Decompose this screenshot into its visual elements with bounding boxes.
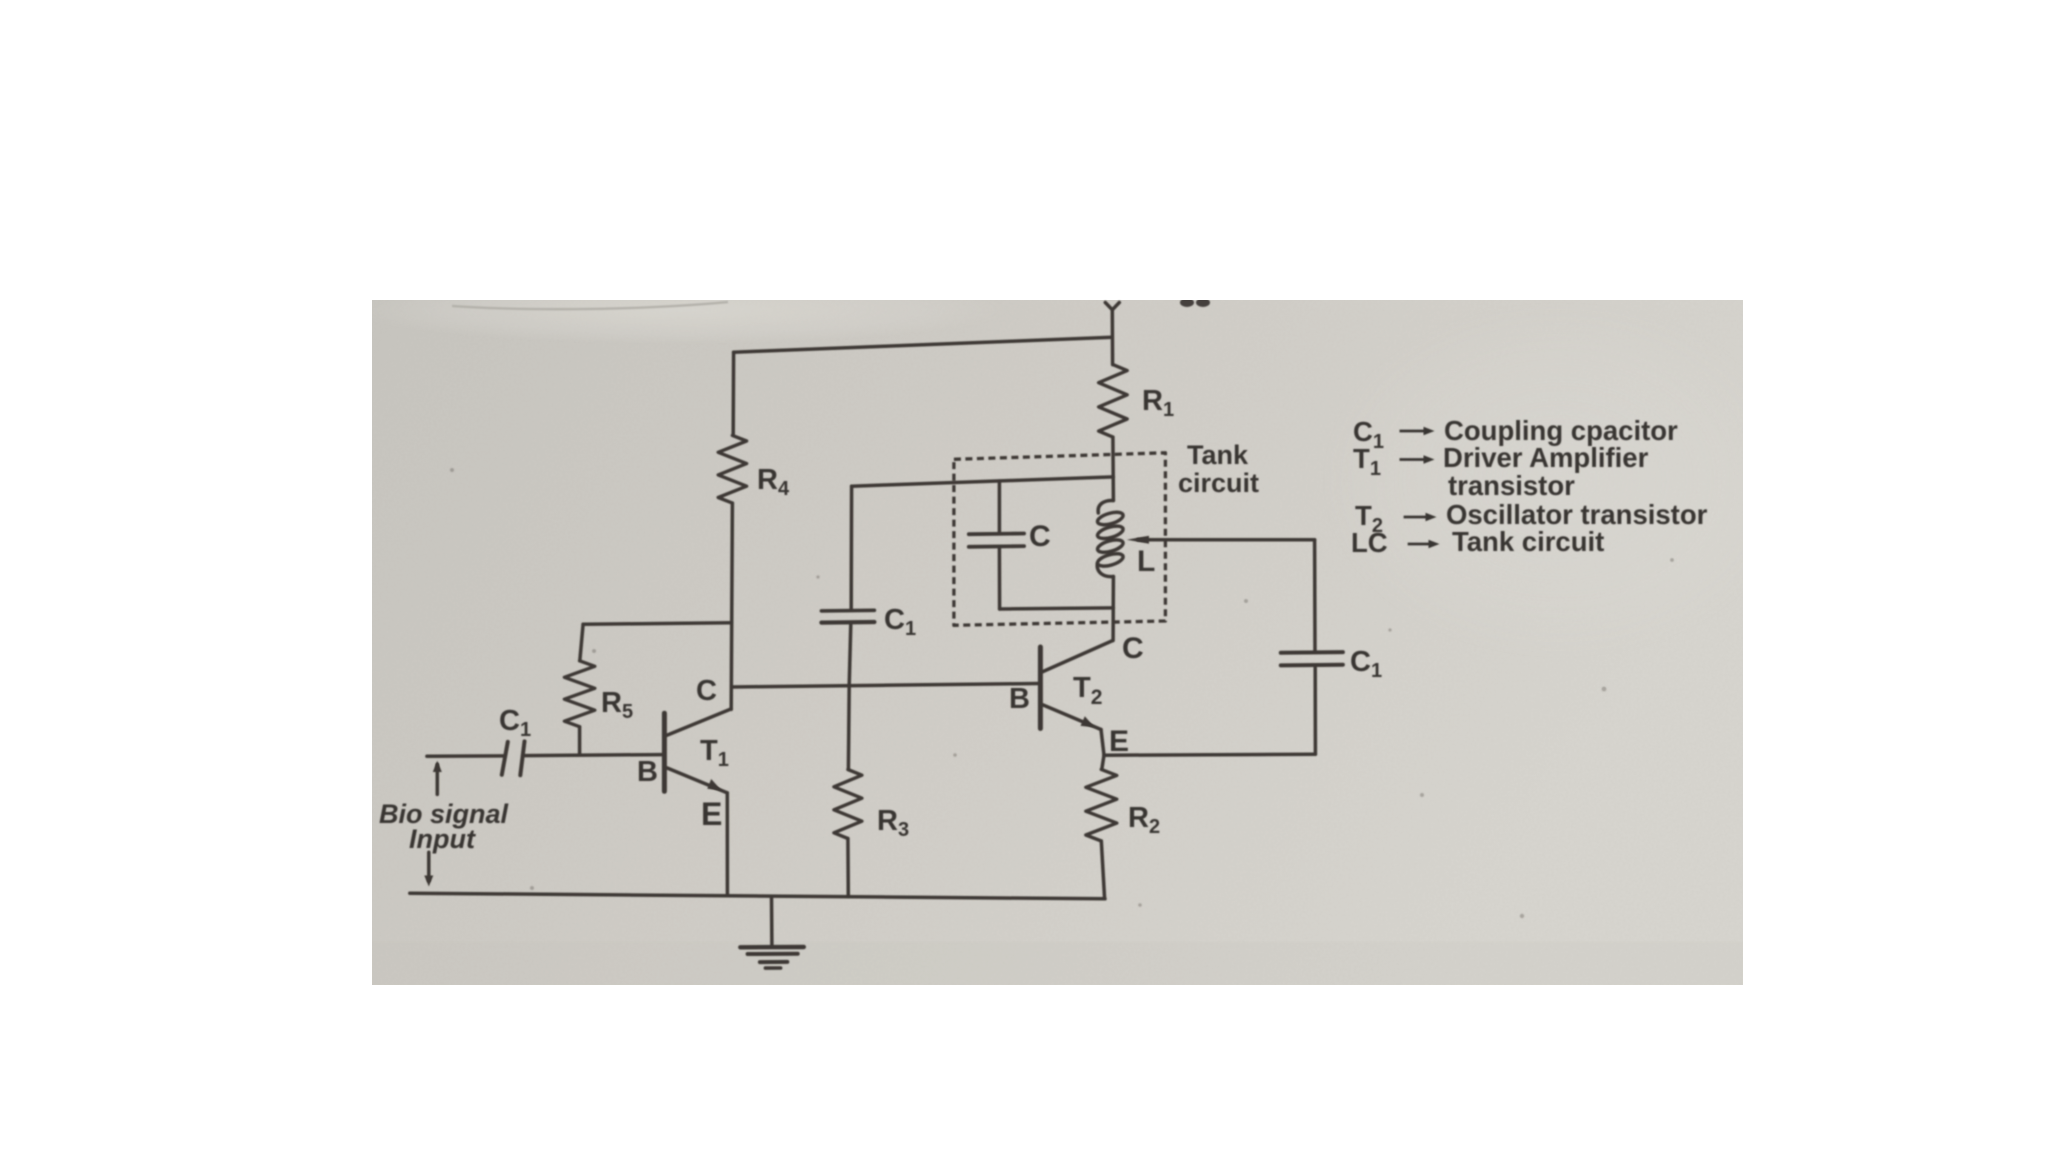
svg-text:C: C xyxy=(1029,520,1051,553)
capacitor C1 input plates xyxy=(502,742,508,775)
arrowhead T1 emitter xyxy=(707,779,721,791)
ground stem xyxy=(770,896,774,945)
wire R5 bottom lead xyxy=(578,727,582,755)
arrowhead T2 emitter xyxy=(1081,716,1095,727)
svg-text:E: E xyxy=(701,796,722,832)
wire C1 mid top lead from tank wire xyxy=(849,486,853,609)
wire C1 right top lead xyxy=(1313,540,1317,651)
inductor L loops xyxy=(1096,510,1124,527)
cropped text marks at top xyxy=(1180,298,1194,307)
resistor R4 xyxy=(718,435,746,503)
capacitor C1 mid plates xyxy=(821,608,874,612)
svg-text:circuit: circuit xyxy=(1178,468,1259,498)
legend arrow 2 xyxy=(1400,458,1427,461)
wire T2 emitter lead xyxy=(1101,730,1104,756)
legend arrow 3 xyxy=(1404,516,1428,519)
wire R2 bottom lead xyxy=(1101,841,1104,899)
faint pencil stroke top-left xyxy=(452,302,728,309)
wire C1 to T1 base xyxy=(524,755,662,756)
legend arrowhead 3 xyxy=(1426,513,1437,522)
transistor T2 base bar xyxy=(1038,647,1043,729)
arrowhead input up xyxy=(433,761,442,772)
transistor T1 collector stroke xyxy=(666,709,731,736)
wire feedback arrow line to L xyxy=(1138,538,1315,542)
wire C1 mid bottom through main wire to R3 xyxy=(848,624,850,770)
wire R2 top lead xyxy=(1102,755,1104,769)
capacitor C tank plates xyxy=(969,532,1024,537)
svg-text:B: B xyxy=(637,756,658,788)
transistor T1 base bar xyxy=(662,713,667,791)
svg-text:C: C xyxy=(696,675,717,707)
inductor L hooks xyxy=(1098,500,1113,513)
svg-text:B: B xyxy=(1009,683,1030,715)
svg-text:transistor: transistor xyxy=(1448,470,1575,501)
resistor R5 xyxy=(564,661,594,727)
photo of textbook page xyxy=(372,300,1743,985)
wire R1 to L xyxy=(1111,437,1115,500)
capacitor C1 right plates xyxy=(1281,663,1343,668)
svg-text:E: E xyxy=(1109,725,1129,758)
tank circuit dashed box xyxy=(954,453,1166,626)
resistor R1 xyxy=(1099,365,1128,438)
photo tonal variation xyxy=(372,942,1743,985)
wire R5 top to R4 branch xyxy=(583,623,732,625)
wire tank bottom xyxy=(1000,608,1114,609)
wire T1 emitter lead down xyxy=(726,793,730,894)
svg-text:Tank circuit: Tank circuit xyxy=(1452,526,1604,557)
svg-text:LC: LC xyxy=(1351,527,1388,558)
wire R4 top lead xyxy=(731,352,735,435)
wire C1 right bottom lead xyxy=(1313,668,1317,754)
svg-text:L: L xyxy=(1137,545,1155,578)
wire tank top xyxy=(852,477,1114,486)
wire R5 top lead xyxy=(580,624,583,661)
legend arrowhead 1 xyxy=(1424,427,1435,436)
wire main T1 collector to T2 base xyxy=(732,684,1039,688)
resistor R2 xyxy=(1086,769,1117,841)
wire R4 bottom lead to T1 collector node xyxy=(731,503,732,709)
transistor T2 collector stroke xyxy=(1042,641,1113,673)
resistor R3 xyxy=(834,770,862,839)
input down arrow shaft xyxy=(427,852,431,880)
wire ground rail xyxy=(410,893,1105,899)
input up arrow shaft xyxy=(436,765,440,795)
svg-text:Tank: Tank xyxy=(1187,440,1249,470)
wire R3 bottom lead xyxy=(846,839,850,897)
legend arrow 4 xyxy=(1408,543,1431,546)
wire input to C1 xyxy=(427,754,505,758)
svg-text:Input: Input xyxy=(409,824,476,854)
wire T2 emitter to C1 right xyxy=(1104,753,1315,757)
arrowhead input down xyxy=(424,876,433,887)
wire R1 branch top xyxy=(1111,310,1115,365)
transistor T1 emitter stroke xyxy=(666,768,727,793)
svg-text:C: C xyxy=(1122,632,1144,665)
arrowhead feedback to L xyxy=(1127,536,1149,544)
wire top rail from R4 to R1 xyxy=(734,337,1113,352)
wire L bottom to T2 collector xyxy=(1111,577,1115,641)
wire tank C top lead xyxy=(998,481,1002,532)
wire tank C bottom lead xyxy=(998,548,1002,609)
ground bars xyxy=(740,945,804,950)
node Vcc arrowhead xyxy=(1105,303,1119,310)
legend arrow 1 xyxy=(1400,430,1427,433)
svg-text:Driver Amplifier: Driver Amplifier xyxy=(1443,442,1649,473)
legend arrowhead 4 xyxy=(1429,540,1440,549)
transistor T2 emitter stroke xyxy=(1042,705,1101,730)
legend arrowhead 2 xyxy=(1424,455,1435,464)
